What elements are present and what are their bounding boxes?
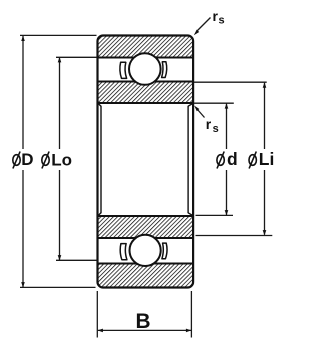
- svg-text:Lo: Lo: [51, 150, 72, 169]
- svg-text:D: D: [21, 150, 33, 169]
- svg-text:s: s: [219, 15, 225, 27]
- svg-text:s: s: [213, 123, 219, 135]
- svg-text:B: B: [136, 310, 151, 333]
- svg-text:Li: Li: [259, 149, 275, 169]
- svg-text:d: d: [227, 149, 238, 169]
- svg-text:r: r: [206, 116, 212, 132]
